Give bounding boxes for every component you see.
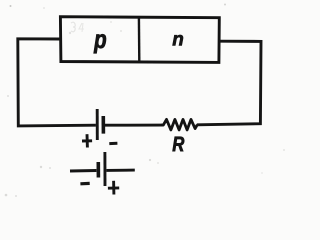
- junction divider line: [138, 17, 141, 61]
- label n: [173, 35, 183, 45]
- p-n junction box outline: [60, 17, 219, 63]
- label + of battery B1: [82, 134, 92, 147]
- battery B2 left stub wire: [70, 169, 96, 172]
- wire: battery to resistor: [105, 124, 163, 127]
- label p: [94, 34, 106, 53]
- battery B1 short plate (-): [102, 116, 106, 134]
- battery B2 long plate (+): [103, 152, 106, 186]
- battery B1 long plate (+): [96, 109, 99, 140]
- label + of battery B2: [108, 181, 119, 195]
- label - of battery B2: [80, 182, 89, 186]
- resistor R: [161, 119, 197, 129]
- scan noise speckles (decorative): [5, 4, 285, 198]
- label - of battery B1: [109, 142, 117, 145]
- label R: [173, 137, 185, 152]
- wire right: resistor to right side up to box: [197, 41, 261, 125]
- wire left: box to left side down to battery: [18, 39, 96, 126]
- battery B2 short plate (-): [97, 162, 101, 178]
- battery B2 right stub wire: [107, 169, 135, 172]
